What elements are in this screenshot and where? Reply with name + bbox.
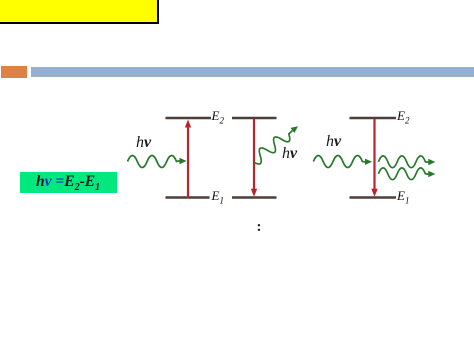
green outgoing photon wavy arrow 1 diagram 3 <box>378 156 435 168</box>
green formula box <box>20 172 117 194</box>
red stimulated emission arrow down diagram 3 <box>371 119 377 197</box>
energy level E2 line diagram 2 <box>232 117 277 119</box>
energy level E2 line diagram 1 <box>166 117 212 119</box>
red emission arrow down diagram 2 <box>251 119 257 197</box>
E1 label diagram 3 <box>397 188 409 206</box>
hv label diagram 1 <box>136 134 151 152</box>
E2 label diagram 3 <box>397 108 409 126</box>
orange accent block of divider bar <box>1 66 27 79</box>
green photon wavy arrow diagram 1 <box>128 156 187 168</box>
E1 label diagram 1 <box>212 188 224 206</box>
green emitted photon wavy arrow diagram 2 (diagonal) <box>249 122 302 166</box>
hv label diagram 3 <box>326 133 341 151</box>
colon separator <box>257 219 262 236</box>
energy level E1 line diagram 3 <box>350 196 397 198</box>
green outgoing photon wavy arrow 2 diagram 3 <box>378 168 435 180</box>
hv label diagram 2 <box>282 145 297 163</box>
E2 label diagram 1 <box>212 108 224 126</box>
red absorption arrow up diagram 1 <box>185 120 191 199</box>
green incoming photon wavy arrow diagram 3 <box>313 156 372 168</box>
energy level E1 line diagram 2 <box>232 196 277 198</box>
blue divider bar <box>31 67 474 78</box>
title placeholder yellow box (top-left, clipped) <box>0 0 159 24</box>
energy level E1 line diagram 1 <box>166 196 210 198</box>
energy level E2 line diagram 3 <box>350 117 397 119</box>
formula text h nu = E2 - E1 <box>36 173 100 193</box>
